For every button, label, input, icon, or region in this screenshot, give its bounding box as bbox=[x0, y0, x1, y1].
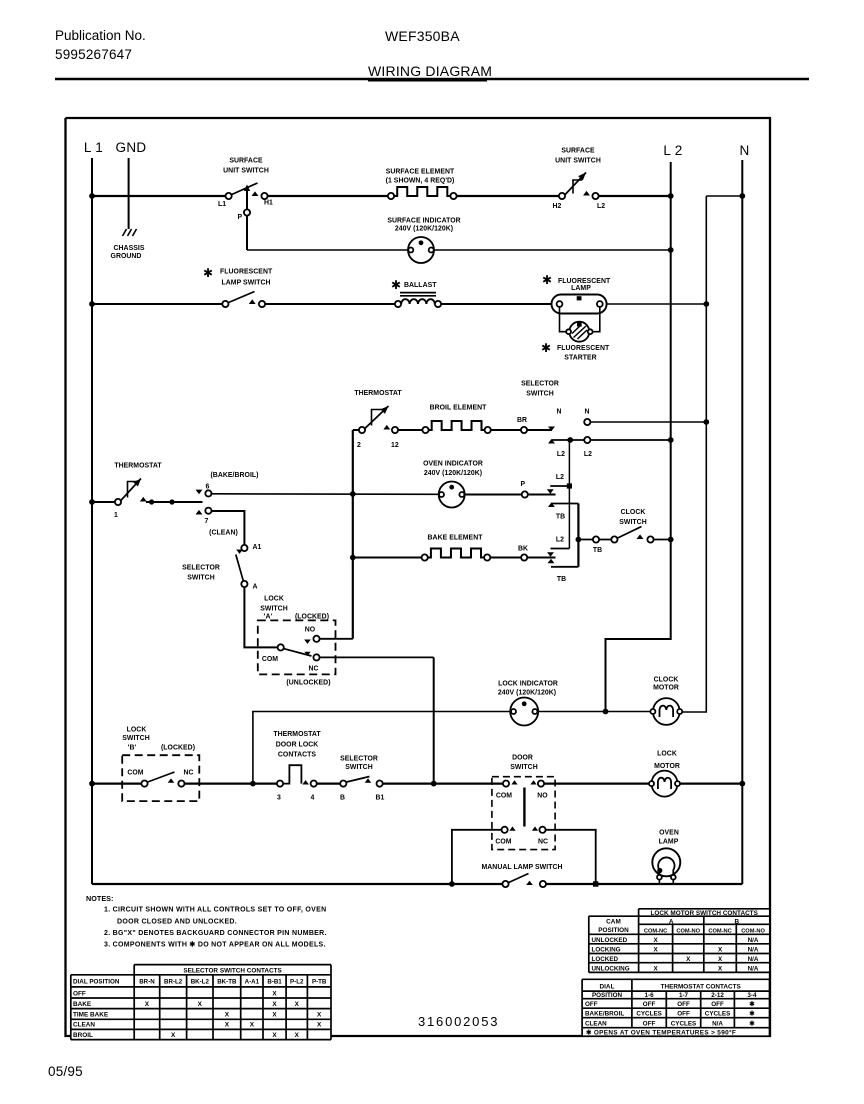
broil element right contact bbox=[485, 427, 491, 433]
lock motor switch contacts table bbox=[589, 916, 770, 972]
svg-text:LAMP: LAMP bbox=[571, 285, 591, 292]
svg-text:COM-NO: COM-NO bbox=[741, 929, 765, 935]
selector BR arm tick N bbox=[548, 427, 555, 432]
selector contact B bbox=[340, 781, 346, 787]
selector clean blade bbox=[236, 555, 243, 581]
svg-text:A1: A1 bbox=[253, 544, 262, 551]
svg-text:CYCLES: CYCLES bbox=[705, 1011, 731, 1018]
wire lamp to N branch bbox=[607, 303, 707, 305]
wire contact 7 to clean selector bbox=[212, 511, 245, 545]
svg-text:(UNLOCKED): (UNLOCKED) bbox=[286, 680, 330, 687]
svg-text:DIAL: DIAL bbox=[599, 984, 614, 991]
lock indicator lamp bbox=[510, 698, 538, 726]
svg-text:✱: ✱ bbox=[203, 266, 213, 280]
junction BR vertical on oven row bbox=[350, 491, 356, 497]
svg-text:LOCK: LOCK bbox=[127, 727, 147, 734]
lock motor bbox=[652, 771, 678, 797]
svg-text:(CLEAN): (CLEAN) bbox=[209, 530, 238, 537]
selector BR arm tick L2 bbox=[548, 439, 555, 444]
selector lower tick bbox=[365, 778, 372, 782]
junction L1 lock row bbox=[89, 781, 95, 787]
svg-text:316002053: 316002053 bbox=[418, 1014, 499, 1029]
wire broil element to BR contact bbox=[491, 429, 524, 431]
selector P contact bbox=[522, 491, 528, 497]
svg-text:COM-NO: COM-NO bbox=[676, 929, 700, 935]
svg-text:CAM: CAM bbox=[606, 918, 621, 925]
junction clock row L2 bus bbox=[668, 537, 674, 543]
wire lock motor to N bus bbox=[681, 782, 743, 784]
door switch link bar bbox=[523, 788, 525, 827]
fluorescent starter leads bbox=[560, 307, 567, 332]
svg-text:NO: NO bbox=[305, 627, 316, 634]
svg-text:CYCLES: CYCLES bbox=[671, 1020, 697, 1027]
thermostat contacts table bbox=[582, 979, 769, 1036]
svg-text:2. BG"X" DENOTES BACKGUARD CON: 2. BG"X" DENOTES BACKGUARD CONNECTOR PIN… bbox=[104, 930, 327, 937]
svg-text:TIME BAKE: TIME BAKE bbox=[73, 1012, 109, 1019]
wire contact 6 to oven indicator bbox=[212, 493, 439, 496]
broil element left contact bbox=[422, 427, 428, 433]
wire 4 to selector B bbox=[317, 782, 340, 784]
svg-text:'B': 'B' bbox=[128, 745, 137, 752]
svg-text:L1: L1 bbox=[218, 201, 226, 208]
ballast left contact bbox=[395, 301, 401, 307]
svg-text:SWITCH: SWITCH bbox=[510, 764, 537, 771]
svg-text:GND: GND bbox=[116, 140, 147, 155]
wire B1 to door switch bbox=[383, 782, 503, 784]
svg-text:CONTACTS: CONTACTS bbox=[278, 752, 317, 759]
svg-text:OFF: OFF bbox=[643, 1001, 656, 1008]
svg-text:MOTOR: MOTOR bbox=[654, 763, 680, 770]
wire oven indicator to P contact bbox=[465, 494, 556, 496]
svg-text:THERMOSTAT: THERMOSTAT bbox=[354, 390, 402, 397]
wire row1 L1 to surface unit switch bbox=[92, 195, 229, 197]
fluorescent lamp switch blade bbox=[229, 292, 255, 303]
svg-text:CHASSIS: CHASSIS bbox=[114, 245, 145, 252]
surface unit switch 1 tick bbox=[252, 191, 259, 196]
svg-text:WIRING DIAGRAM: WIRING DIAGRAM bbox=[368, 63, 492, 79]
svg-text:UNLOCKED: UNLOCKED bbox=[592, 937, 628, 944]
svg-text:X: X bbox=[250, 1022, 255, 1029]
lock switch B tick bbox=[168, 778, 175, 782]
selector BK arm lower tick bbox=[548, 559, 555, 564]
thermostat arm tick 6 bbox=[196, 490, 203, 495]
svg-text:DOOR CLOSED AND UNLOCKED.: DOOR CLOSED AND UNLOCKED. bbox=[117, 919, 237, 926]
surface unit switch 1 blade bbox=[232, 183, 258, 195]
wire selector L2 row bbox=[552, 439, 584, 441]
wire N bus vertical bbox=[741, 160, 743, 884]
svg-text:X: X bbox=[272, 1032, 277, 1039]
door lock contact pulse symbol bbox=[283, 765, 301, 783]
svg-text:DOOR LOCK: DOOR LOCK bbox=[276, 742, 319, 749]
selector BR contact bbox=[521, 427, 527, 433]
thermostat broil blade bbox=[365, 406, 389, 429]
selector contact B1 bbox=[377, 781, 383, 787]
svg-text:DOOR: DOOR bbox=[512, 755, 533, 762]
svg-text:SELECTOR: SELECTOR bbox=[521, 381, 559, 388]
wire lock B to door lock contacts bbox=[185, 782, 277, 784]
wire L2 bus vertical with jog to lock indicator row bbox=[606, 162, 671, 712]
svg-text:NOTES:: NOTES: bbox=[86, 894, 113, 903]
lock switch A NC contact bbox=[313, 654, 319, 660]
svg-text:L2: L2 bbox=[597, 203, 605, 210]
wire selector TB thick vertical bbox=[577, 504, 579, 567]
svg-text:TB: TB bbox=[593, 547, 602, 554]
svg-text:COM: COM bbox=[496, 793, 512, 800]
junction BR vertical bake row bbox=[350, 555, 356, 561]
junction L2 jog on lock indicator row bbox=[603, 709, 609, 715]
svg-text:L 1: L 1 bbox=[84, 140, 103, 155]
wire fluorescent row from L1 bbox=[92, 303, 225, 305]
svg-text:BR-L2: BR-L2 bbox=[164, 979, 183, 986]
wire between clock contacts bbox=[599, 539, 614, 541]
lock switch A NC tick bbox=[304, 652, 310, 656]
clock motor bbox=[653, 698, 680, 725]
svg-text:X: X bbox=[272, 990, 277, 997]
door lock contact 3 bbox=[277, 781, 283, 787]
svg-text:12: 12 bbox=[391, 442, 399, 449]
thermostat contact 12 bbox=[392, 427, 398, 433]
svg-text:SELECTOR: SELECTOR bbox=[340, 756, 378, 763]
selector BK arm upper link bbox=[551, 548, 570, 550]
wire bottom row right bbox=[546, 883, 742, 885]
svg-text:DIAL POSITION: DIAL POSITION bbox=[73, 979, 120, 986]
svg-text:SELECTOR: SELECTOR bbox=[182, 565, 220, 572]
svg-text:7: 7 bbox=[205, 518, 209, 525]
surface unit switch 1 contact P bbox=[244, 209, 250, 215]
wire thermostat row from L1 bbox=[92, 501, 115, 503]
wire broil row start corner bbox=[353, 429, 359, 431]
manual lamp switch contact left bbox=[502, 881, 508, 887]
junction manual switch right riser bbox=[593, 881, 598, 886]
svg-text:TB: TB bbox=[557, 576, 566, 583]
junction selector N row bbox=[703, 419, 709, 425]
svg-text:B: B bbox=[734, 918, 739, 925]
svg-text:BAKE: BAKE bbox=[73, 1001, 92, 1008]
svg-text:BROIL: BROIL bbox=[73, 1032, 93, 1039]
svg-text:3. COMPONENTS WITH ✱ DO NOT AP: 3. COMPONENTS WITH ✱ DO NOT APPEAR ON AL… bbox=[104, 941, 326, 949]
broil element heater bbox=[429, 421, 485, 430]
svg-text:'A': 'A' bbox=[264, 614, 273, 621]
svg-text:N/A: N/A bbox=[712, 1020, 723, 1027]
bake element left contact bbox=[422, 554, 428, 560]
manual lamp switch tick bbox=[526, 881, 533, 885]
oven lamp bbox=[652, 848, 680, 876]
svg-text:✱: ✱ bbox=[391, 278, 401, 292]
svg-text:✱ OPENS AT OVEN TEMPERATURES >: ✱ OPENS AT OVEN TEMPERATURES > 590°F bbox=[586, 1028, 736, 1036]
svg-text:THERMOSTAT: THERMOSTAT bbox=[114, 463, 162, 470]
junction L1 row1 bbox=[89, 193, 95, 199]
wire bake element to BK contact bbox=[490, 557, 555, 559]
surface element heater bbox=[394, 187, 450, 196]
svg-text:(1 SHOWN, 4 REQ'D): (1 SHOWN, 4 REQ'D) bbox=[386, 178, 455, 185]
wire row1 element to surface unit switch 2 bbox=[457, 195, 562, 197]
wire GND lead bbox=[128, 158, 130, 229]
clock switch tick bbox=[637, 534, 644, 539]
wire lock-B riser bbox=[253, 712, 510, 784]
svg-text:L2: L2 bbox=[556, 537, 564, 544]
svg-text:UNIT SWITCH: UNIT SWITCH bbox=[555, 158, 601, 165]
thermostat contact 6 bbox=[205, 490, 211, 496]
oven indicator lamp bbox=[439, 482, 465, 508]
svg-text:5995267647: 5995267647 bbox=[55, 47, 132, 62]
svg-text:BAKE/BROIL: BAKE/BROIL bbox=[585, 1011, 624, 1018]
surface unit switch 1 P branch with up arrow bbox=[246, 190, 248, 250]
selector BK arm lower link to TB bus bbox=[551, 566, 578, 568]
svg-text:✱: ✱ bbox=[542, 273, 552, 287]
wire NC vertical down to door lock row bbox=[433, 657, 435, 783]
wire TB bus to clock switch bbox=[578, 539, 596, 541]
svg-text:N/A: N/A bbox=[748, 956, 759, 963]
svg-text:POSITION: POSITION bbox=[592, 992, 623, 999]
wire lock indicator to clock motor bbox=[538, 711, 653, 713]
svg-text:X: X bbox=[317, 1012, 322, 1019]
svg-text:UNLOCKING: UNLOCKING bbox=[592, 966, 630, 973]
bake element right contact bbox=[484, 554, 490, 560]
svg-text:A: A bbox=[669, 918, 674, 925]
svg-text:CLOCK: CLOCK bbox=[621, 509, 646, 516]
svg-text:WEF350BA: WEF350BA bbox=[385, 28, 460, 44]
surface unit switch 2 contact H2 bbox=[559, 193, 565, 199]
junction L1 fluorescent row bbox=[89, 301, 95, 307]
svg-text:COM-NC: COM-NC bbox=[644, 929, 667, 935]
svg-text:TB: TB bbox=[556, 514, 565, 521]
svg-text:X: X bbox=[272, 1012, 277, 1019]
svg-text:B-B1: B-B1 bbox=[267, 979, 282, 986]
svg-text:240V (120K/120K): 240V (120K/120K) bbox=[395, 226, 453, 233]
svg-text:COM: COM bbox=[262, 656, 278, 663]
svg-text:OFF: OFF bbox=[643, 1020, 656, 1027]
svg-text:SURFACE ELEMENT: SURFACE ELEMENT bbox=[386, 169, 455, 176]
svg-text:COM-NC: COM-NC bbox=[708, 929, 731, 935]
svg-text:A: A bbox=[253, 584, 258, 591]
svg-text:COM: COM bbox=[495, 839, 511, 846]
wire clock switch to L2 bus bbox=[654, 539, 671, 541]
surface element right contact bbox=[450, 193, 456, 199]
surface unit switch 1 contact L1 bbox=[226, 193, 232, 199]
wire N branch to N bus top bbox=[706, 195, 742, 197]
junction row1 L2 bus bbox=[668, 193, 674, 199]
wire selector L2 row to L2 bus bbox=[591, 439, 671, 441]
svg-text:SWITCH: SWITCH bbox=[619, 519, 646, 526]
svg-text:✱: ✱ bbox=[749, 1001, 754, 1008]
thermostat contact 2 bbox=[359, 427, 365, 433]
svg-text:SWITCH: SWITCH bbox=[345, 764, 372, 771]
svg-text:N/A: N/A bbox=[748, 937, 759, 944]
svg-text:OVEN INDICATOR: OVEN INDICATOR bbox=[423, 461, 483, 468]
header rule bbox=[55, 78, 809, 80]
svg-text:X: X bbox=[225, 1022, 230, 1029]
junction L1 thermostat row bbox=[89, 499, 95, 505]
ballast coil bbox=[401, 299, 435, 304]
wire row1 switch2 to L2 bus bbox=[599, 195, 671, 197]
svg-text:2-12: 2-12 bbox=[711, 992, 724, 999]
svg-text:GROUND: GROUND bbox=[111, 253, 142, 260]
wire 12 to broil element bbox=[398, 429, 425, 431]
svg-text:BR: BR bbox=[517, 417, 527, 424]
manual lamp switch blade bbox=[509, 874, 529, 883]
svg-text:X: X bbox=[317, 1022, 322, 1029]
svg-text:2: 2 bbox=[357, 442, 361, 449]
svg-text:B1: B1 bbox=[376, 795, 385, 802]
svg-text:1. CIRCUIT SHOWN WITH ALL CONT: 1. CIRCUIT SHOWN WITH ALL CONTROLS SET T… bbox=[104, 907, 326, 914]
svg-text:L2: L2 bbox=[557, 451, 565, 458]
junction lock motor N bus bbox=[739, 781, 745, 787]
svg-text:LOCK: LOCK bbox=[657, 751, 677, 758]
wire L1 bus vertical bbox=[91, 158, 93, 884]
junction manual switch left riser bbox=[449, 881, 455, 887]
selector switch contacts table bbox=[71, 975, 331, 1040]
svg-text:LAMP: LAMP bbox=[659, 839, 679, 846]
door switch COM contact row2 bbox=[502, 827, 508, 833]
svg-text:N/A: N/A bbox=[748, 966, 759, 973]
svg-text:OFF: OFF bbox=[73, 990, 86, 997]
svg-text:BK-L2: BK-L2 bbox=[191, 979, 210, 986]
junction TB bus clock row bbox=[576, 537, 582, 543]
svg-text:N: N bbox=[739, 143, 749, 158]
left thermostat tick bbox=[140, 497, 147, 502]
svg-text:1: 1 bbox=[114, 512, 118, 519]
fluorescent lamp terminals bbox=[557, 301, 563, 307]
wire NO to BR vertical bbox=[320, 638, 353, 640]
svg-text:CLEAN: CLEAN bbox=[585, 1020, 607, 1027]
svg-text:COM: COM bbox=[127, 770, 143, 777]
svg-text:A-A1: A-A1 bbox=[245, 979, 260, 986]
surface unit switch 1 contact H1 bbox=[261, 193, 267, 199]
svg-text:LOCKING: LOCKING bbox=[592, 947, 621, 954]
svg-text:MOTOR: MOTOR bbox=[653, 685, 679, 692]
svg-text:SELECTOR SWITCH CONTACTS: SELECTOR SWITCH CONTACTS bbox=[183, 968, 282, 975]
diagram border frame bbox=[66, 118, 771, 1036]
lock switch A COM contact bbox=[278, 644, 284, 650]
left thermostat blade bbox=[121, 479, 141, 501]
svg-text:1-7: 1-7 bbox=[679, 992, 689, 999]
clock switch contact 2 bbox=[611, 536, 617, 542]
junction lamp N branch bbox=[703, 301, 709, 307]
svg-text:P: P bbox=[238, 214, 243, 221]
svg-text:SWITCH: SWITCH bbox=[260, 606, 287, 613]
door switch NC contact row2 bbox=[539, 827, 545, 833]
door switch COM contact row1 bbox=[503, 781, 509, 787]
svg-text:P-L2: P-L2 bbox=[290, 979, 304, 986]
svg-text:4: 4 bbox=[311, 795, 315, 802]
wire surface indicator to L2 bus bbox=[434, 249, 671, 251]
svg-text:NC: NC bbox=[183, 770, 193, 777]
selector P arm lower tick bbox=[548, 502, 555, 507]
lock switch A NO tick bbox=[304, 640, 311, 644]
svg-text:X: X bbox=[295, 1001, 300, 1008]
svg-text:CLEAN: CLEAN bbox=[73, 1022, 95, 1029]
svg-text:BALLAST: BALLAST bbox=[404, 282, 437, 289]
svg-text:N: N bbox=[584, 409, 589, 416]
lock switch B NC contact bbox=[178, 781, 184, 787]
svg-text:H1: H1 bbox=[264, 200, 273, 207]
thermostat contact 7 bbox=[205, 508, 211, 514]
svg-text:(LOCKED): (LOCKED) bbox=[295, 614, 329, 621]
square junction L2 vertical to P arm bbox=[567, 483, 572, 488]
svg-text:LOCK INDICATOR: LOCK INDICATOR bbox=[498, 681, 558, 688]
junction selector L2 row at L2 bus bbox=[668, 437, 674, 443]
svg-text:BR-N: BR-N bbox=[139, 979, 155, 986]
selector lower blade bbox=[347, 777, 370, 783]
door switch NO contact row1 bbox=[538, 781, 544, 787]
svg-text:L 2: L 2 bbox=[663, 143, 682, 158]
thermostat broil tick bbox=[383, 425, 390, 430]
selector BK arm upper tick bbox=[547, 552, 554, 557]
svg-text:X: X bbox=[171, 1032, 176, 1039]
wire BR vertical bus bbox=[352, 430, 354, 639]
wire NC to NC vertical bbox=[320, 656, 434, 658]
svg-text:BK: BK bbox=[518, 546, 528, 553]
wire surface indicator row bbox=[247, 249, 408, 251]
bake element heater bbox=[428, 549, 484, 558]
door switch row2 ticks bbox=[509, 827, 515, 831]
chassis ground symbol bbox=[123, 229, 127, 236]
wire lock row from L1 bbox=[92, 782, 141, 784]
wire BR contact to arm bbox=[527, 429, 552, 431]
svg-text:X: X bbox=[272, 1001, 277, 1008]
manual lamp switch contact right bbox=[540, 881, 546, 887]
svg-text:THERMOSTAT CONTACTS: THERMOSTAT CONTACTS bbox=[661, 984, 742, 991]
fluorescent starter bbox=[569, 322, 589, 342]
svg-text:NO: NO bbox=[537, 793, 548, 800]
svg-text:H2: H2 bbox=[553, 203, 562, 210]
door switch row1 ticks bbox=[511, 780, 517, 784]
wire door switch NO to lock motor bbox=[544, 782, 651, 784]
oven lamp leads bbox=[658, 880, 660, 884]
lock switch A blade bbox=[284, 649, 312, 656]
svg-text:UNIT SWITCH: UNIT SWITCH bbox=[223, 168, 269, 175]
svg-text:FLUORESCENT: FLUORESCENT bbox=[557, 345, 610, 352]
svg-text:SURFACE: SURFACE bbox=[229, 158, 263, 165]
door switch dashed box bbox=[492, 777, 555, 850]
svg-text:Publication No.: Publication No. bbox=[55, 28, 146, 43]
lock switch B blade bbox=[148, 772, 175, 782]
fluorescent lamp switch contact left bbox=[222, 301, 228, 307]
thermostat arm tick 7 bbox=[196, 510, 203, 515]
svg-text:NC: NC bbox=[308, 666, 318, 673]
svg-text:X: X bbox=[145, 1001, 150, 1008]
svg-text:LAMP SWITCH: LAMP SWITCH bbox=[222, 280, 271, 287]
svg-text:(LOCKED): (LOCKED) bbox=[161, 745, 195, 752]
ballast right contact bbox=[435, 301, 441, 307]
svg-text:BROIL ELEMENT: BROIL ELEMENT bbox=[430, 405, 488, 412]
clock switch contact TB bbox=[593, 536, 599, 542]
svg-text:(BAKE/BROIL): (BAKE/BROIL) bbox=[210, 472, 258, 479]
clock switch blade bbox=[618, 527, 642, 539]
surface unit switch 2 tick bbox=[583, 191, 590, 196]
svg-text:FLUORESCENT: FLUORESCENT bbox=[220, 269, 273, 276]
svg-text:OFF: OFF bbox=[677, 1001, 690, 1008]
svg-text:3: 3 bbox=[277, 795, 281, 802]
lock switch A NO contact bbox=[313, 636, 319, 642]
wire N branch vertical bbox=[682, 196, 706, 712]
selector clean tick bbox=[236, 550, 243, 554]
door lock tick bbox=[302, 780, 309, 784]
svg-text:STARTER: STARTER bbox=[564, 355, 596, 362]
svg-text:L2: L2 bbox=[556, 474, 564, 481]
svg-text:L2: L2 bbox=[584, 451, 592, 458]
svg-text:SWITCH: SWITCH bbox=[187, 575, 214, 582]
wire bake row from BR vertical bbox=[353, 557, 425, 559]
svg-text:6: 6 bbox=[206, 484, 210, 491]
lock switch A dashed box bbox=[258, 620, 336, 674]
lock switch B dashed box bbox=[122, 755, 199, 801]
surface unit switch 2 bracket bbox=[573, 180, 582, 194]
wire A down to lock switch A COM bbox=[244, 587, 277, 647]
svg-text:B: B bbox=[340, 795, 345, 802]
svg-text:LOCKED: LOCKED bbox=[592, 956, 619, 963]
svg-text:LOCK: LOCK bbox=[264, 596, 284, 603]
